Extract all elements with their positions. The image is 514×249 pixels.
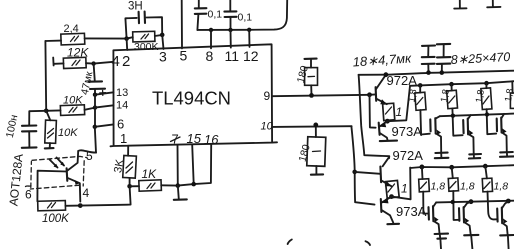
capacitor 0,1 second xyxy=(224,0,252,30)
node pin4/12K xyxy=(91,61,95,65)
svg-text:3Н: 3Н xyxy=(128,1,143,13)
svg-text:972А: 972А xyxy=(393,148,424,163)
wire drain bus upper xyxy=(440,114,514,117)
svg-text:3: 3 xyxy=(159,49,167,65)
svg-text:10K: 10K xyxy=(63,95,83,107)
node pin14 xyxy=(93,105,97,109)
svg-text:1: 1 xyxy=(401,182,408,196)
node 972A collector on rail xyxy=(384,72,389,77)
capacitor bank cap A xyxy=(422,46,435,73)
node bus low 1 xyxy=(451,200,455,204)
transistor Q5 973A lower xyxy=(381,197,399,225)
node lower 972A base tap xyxy=(352,170,357,175)
node 300K right / pin3 xyxy=(160,33,165,38)
wire pin 5 to top edge xyxy=(181,0,183,48)
wire 0,1 rail xyxy=(197,0,287,30)
node cap A xyxy=(426,70,431,75)
svg-text:3K: 3K xyxy=(112,158,126,174)
resistor 180 upper xyxy=(295,59,318,96)
node gate R2 up xyxy=(449,82,454,87)
wire 10K right to pin14 node xyxy=(85,108,96,110)
capacitor 0,1 first xyxy=(195,0,222,30)
wire pin 14 xyxy=(95,105,114,107)
wire node A to 10K left xyxy=(46,109,60,111)
svg-text:1,8: 1,8 xyxy=(406,88,419,103)
optocoupler dashed box xyxy=(30,156,87,189)
node 180 lower / pin10 xyxy=(313,123,318,128)
resistor 180 lower xyxy=(297,125,326,175)
svg-text:973А: 973А xyxy=(392,124,423,139)
node 180 upper / pin9 xyxy=(309,93,314,98)
node gate R3 low xyxy=(483,164,488,169)
resistor gate R1 upper 1,8 xyxy=(406,85,429,134)
node pin 11 xyxy=(228,28,232,32)
svg-text:0,1: 0,1 xyxy=(238,12,253,24)
capacitor 47мк xyxy=(79,64,106,96)
node pin 6 xyxy=(93,125,97,129)
node bus low 2 xyxy=(469,199,474,204)
svg-text:10: 10 xyxy=(261,121,274,133)
svg-text:13: 13 xyxy=(116,87,128,99)
wire pin10 net vertical lower xyxy=(351,126,374,204)
node pin 12 xyxy=(247,28,251,32)
transistor M5 MOSFET lower xyxy=(459,202,478,249)
resistor 10K horizontal xyxy=(60,95,84,116)
svg-text:5: 5 xyxy=(180,48,188,64)
node bus R3 crossing xyxy=(485,112,489,116)
svg-text:2,4: 2,4 xyxy=(64,23,79,35)
transistor Q2 973A upper xyxy=(379,121,397,141)
node gate R1 up xyxy=(418,83,423,88)
wire pin 10 xyxy=(273,125,352,128)
resistor 300K xyxy=(127,31,163,53)
svg-text:1,8: 1,8 xyxy=(474,89,487,104)
opto base loop wire xyxy=(37,171,66,202)
capacitor 3Н xyxy=(125,1,162,39)
resistor 1 upper xyxy=(383,103,403,120)
wire pins 7/15/16 tie xyxy=(178,144,212,185)
wire pin 11 riser xyxy=(230,30,232,48)
resistor gate R2 lower 1,8 xyxy=(448,167,474,220)
wire pin 2 riser xyxy=(126,39,129,50)
opto LED light arrows xyxy=(50,158,65,169)
wire 100K right to node 4 xyxy=(65,205,80,207)
resistor 10K vertical xyxy=(45,111,78,149)
svg-text:1,8: 1,8 xyxy=(431,181,446,193)
wire pin 3 riser xyxy=(162,35,163,49)
svg-text:1,8: 1,8 xyxy=(460,181,475,193)
svg-text:1K: 1K xyxy=(142,167,158,181)
svg-text:4: 4 xyxy=(83,186,90,200)
wire pin10 net riser upper xyxy=(359,75,390,158)
svg-text:1: 1 xyxy=(396,105,403,119)
svg-text:100K: 100K xyxy=(42,213,70,225)
node bus low 3 xyxy=(506,199,511,204)
node gate R3 up xyxy=(484,81,489,86)
resistor 12K xyxy=(63,46,89,69)
wire gate rail lower xyxy=(410,165,514,168)
wire left rail down to node A xyxy=(44,41,47,111)
wire base drop to 973A upper xyxy=(370,95,376,128)
resistor gate R1 lower 1,8 xyxy=(419,167,446,214)
wire vertical 13/14/6 xyxy=(94,95,96,127)
wire 2,4 left to left rail xyxy=(45,40,61,42)
node pin7 gnd xyxy=(176,183,181,188)
wire pin10 base lower xyxy=(355,172,381,174)
wire pin 8 riser xyxy=(210,30,212,48)
wire top rail upper bank xyxy=(359,71,514,75)
transistor Q1 972A upper xyxy=(370,75,387,105)
capacitor bank cap B xyxy=(437,44,451,73)
transistor M2 MOSFET upper xyxy=(463,115,481,158)
terminal stub 12K left xyxy=(53,58,63,66)
node cap B xyxy=(440,70,445,75)
top edge stub 2 xyxy=(487,0,500,7)
node pin15 xyxy=(191,182,196,187)
resistor 1 lower xyxy=(385,180,407,198)
resistor gate R3 upper 1,8 xyxy=(474,83,496,134)
node cap47 bottom xyxy=(93,93,97,97)
transistor M3 MOSFET upper xyxy=(497,114,514,157)
svg-text:15: 15 xyxy=(187,131,202,146)
svg-text:1,8: 1,8 xyxy=(439,88,452,103)
svg-text:0,1: 0,1 xyxy=(208,9,223,21)
wire emitter output riser upper xyxy=(387,86,410,121)
node pin9 base xyxy=(367,92,372,97)
svg-text:300K: 300K xyxy=(134,41,159,53)
node gate R1 low xyxy=(420,165,425,170)
pin 7 label (struck) xyxy=(171,132,181,147)
transistor M4 MOSFET lower xyxy=(429,202,449,249)
wire pin6 node down to opto collector xyxy=(95,127,96,153)
svg-text:14: 14 xyxy=(116,100,128,112)
svg-text:5: 5 xyxy=(86,149,93,163)
capacitor 100н xyxy=(4,111,46,148)
node 3K bottom xyxy=(127,184,132,189)
wire 12K right to pin4 node xyxy=(86,62,94,64)
svg-text:11: 11 xyxy=(225,48,240,64)
wire pin 6 xyxy=(95,124,114,126)
svg-text:2: 2 xyxy=(122,53,130,70)
node gate R2 low xyxy=(449,165,454,170)
svg-text:6: 6 xyxy=(117,117,124,132)
node bus R2 crossing xyxy=(451,114,455,118)
resistor gate R2 upper 1,8 xyxy=(439,84,463,136)
resistor gate R4 upper partial xyxy=(503,81,514,108)
svg-text:9: 9 xyxy=(264,89,271,103)
node pin 8 xyxy=(209,28,213,32)
svg-text:10K: 10K xyxy=(58,127,78,139)
parenthesis mark right xyxy=(366,241,371,245)
resistor 100K xyxy=(38,201,71,225)
node 1 bottom upper xyxy=(385,119,390,124)
wire pin 9 xyxy=(272,95,369,96)
op-amp U1 TL494CN body xyxy=(111,44,278,146)
svg-text:12K: 12K xyxy=(67,46,89,60)
svg-text:6: 6 xyxy=(25,188,32,202)
resistor gate R3 lower 1,8 xyxy=(482,166,508,219)
svg-text:TL494CN: TL494CN xyxy=(152,89,231,109)
wire gate rail upper xyxy=(410,81,514,86)
wire emitter output riser lower xyxy=(392,168,411,200)
svg-text:12: 12 xyxy=(243,48,259,64)
svg-text:973А: 973А xyxy=(396,204,427,219)
transistor M1 MOSFET upper xyxy=(430,116,448,158)
wire pin 12 riser xyxy=(248,30,250,47)
parenthesis mark left xyxy=(288,240,292,245)
wire drain bus lower xyxy=(436,201,514,203)
opto phototransistor Q3 xyxy=(67,150,96,201)
svg-text:1: 1 xyxy=(120,131,127,146)
resistor 2,4 xyxy=(61,23,85,45)
node opto emitter/100K xyxy=(78,203,83,208)
resistor 3K xyxy=(112,146,136,186)
wire 2,4 right to node B xyxy=(85,37,127,39)
node 1 bottom lower xyxy=(389,194,394,199)
wire node4 to 3K bottom xyxy=(80,186,130,205)
top edge stub 1 xyxy=(454,0,466,9)
node A xyxy=(44,109,49,114)
transistor M6 MOSFET lower xyxy=(497,201,513,249)
resistor 1K xyxy=(130,167,178,191)
svg-text:8: 8 xyxy=(206,48,214,64)
svg-text:1,8: 1,8 xyxy=(494,181,509,193)
wire pin 4 xyxy=(94,62,114,64)
transistor Q4 972A lower xyxy=(380,157,391,186)
node 2,4/300K/pin2 xyxy=(124,36,129,41)
ground pin7 xyxy=(178,186,179,200)
wire pin 13 xyxy=(95,92,114,94)
